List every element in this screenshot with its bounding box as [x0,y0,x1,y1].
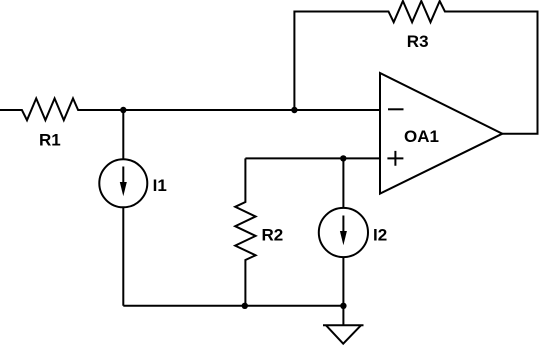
svg-text:R3: R3 [407,32,429,51]
svg-text:OA1: OA1 [404,127,439,146]
svg-text:I2: I2 [373,225,387,244]
svg-text:R2: R2 [262,225,284,244]
svg-text:R1: R1 [39,131,61,150]
svg-text:I1: I1 [153,176,167,195]
